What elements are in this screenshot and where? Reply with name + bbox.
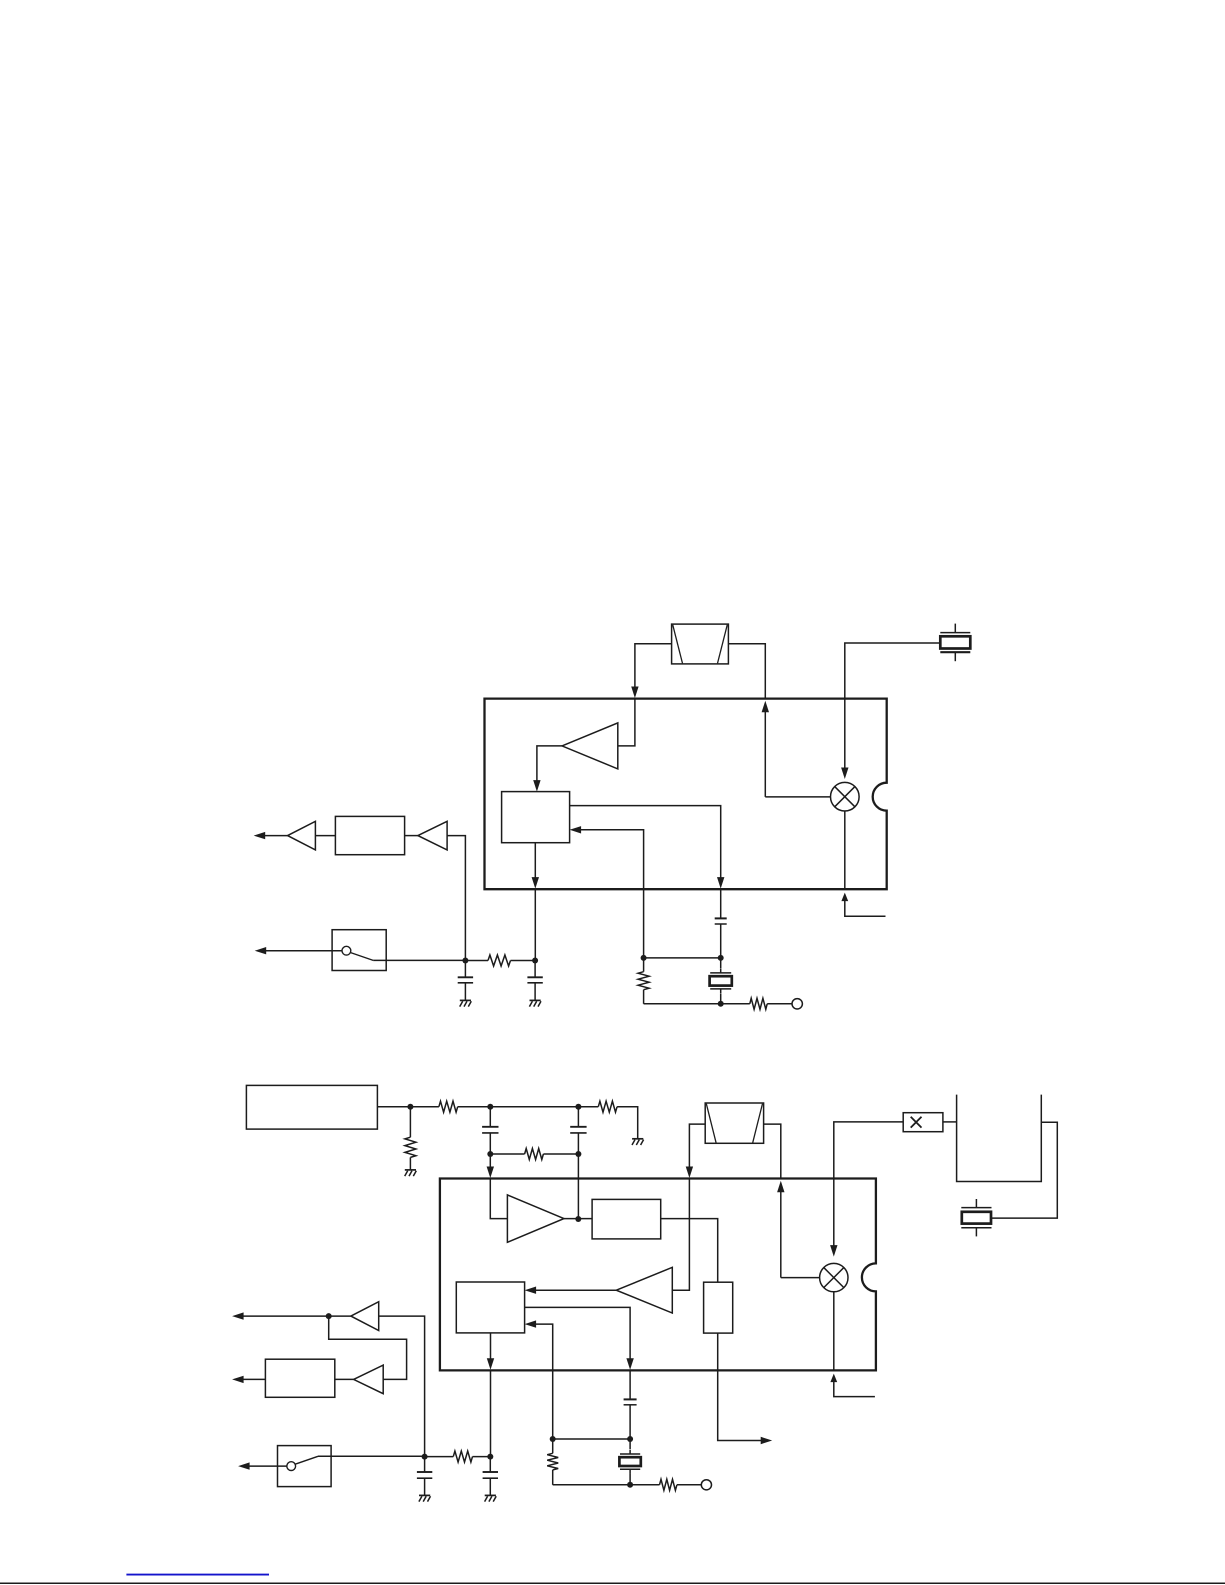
wire B6 quad output down (arrow at IC2 bottom)	[525, 1307, 631, 1365]
block B7 (output filter, bottom diagram)	[265, 1359, 334, 1397]
amplifier A7 (points left)	[354, 1365, 384, 1394]
multiplier box (X) of oscillator	[903, 1113, 943, 1132]
wire mixer M2 to IC2 bottom edge	[833, 1292, 835, 1371]
footer hyperlink underline (blue)	[126, 1574, 269, 1576]
block B2 (output filter)	[335, 816, 404, 854]
crystal X4 (oscillator, bottom diagram)	[975, 1199, 977, 1208]
node N11	[575, 1216, 581, 1222]
capacitor C7 to ground	[489, 1457, 491, 1472]
resistor R2 (horizontal to terminal)	[750, 998, 767, 1009]
node N2	[718, 955, 724, 961]
arrow into IC2 top (IF input pin)	[686, 1167, 693, 1179]
wire A4 output to block B4	[564, 1218, 592, 1220]
wire crystal X1 to mixer M1 LO input	[845, 643, 940, 768]
switch SW1 contact circle	[342, 946, 351, 955]
node N13	[550, 1436, 556, 1442]
IC U1 outline (top diagram)	[485, 699, 887, 890]
arrow into mixer M1 top	[841, 768, 848, 780]
switch SW2 contact circle	[287, 1462, 296, 1471]
capacitor C3 to ground	[464, 961, 466, 978]
output 1 wire with arrow (bottom diagram)	[243, 1315, 351, 1317]
wire R2 to terminal T1	[767, 1003, 792, 1005]
crystal X1 (top-right resonator)	[954, 624, 956, 633]
wire SW2 to node N16	[318, 1455, 425, 1457]
wire pin to amp A5 input	[672, 1179, 689, 1291]
mixer M2 (circle-X, bottom diagram)	[820, 1263, 848, 1291]
wire CF2 output to mixer M2 path	[764, 1124, 781, 1178]
node N17 (on output 1 wire)	[326, 1313, 332, 1319]
resistor R5 (horizontal)	[410, 1106, 439, 1108]
wire node N13 to node N12	[553, 1438, 630, 1440]
arrow into detector B1 top	[533, 780, 540, 792]
arrow into IC1 top (IF amp input pin)	[631, 687, 638, 699]
node N1	[641, 955, 647, 961]
wire oscillator to mixer M2 LO input	[834, 1122, 903, 1250]
phase block B5 (narrow vertical)	[704, 1282, 733, 1333]
terminal T2 (open circle)	[701, 1480, 711, 1490]
output 3 wire with arrow	[249, 1465, 287, 1467]
ground G4	[632, 1138, 643, 1140]
wire node N16 up to output amp chain	[379, 1316, 425, 1457]
wire tank to crystal X4	[991, 1122, 1057, 1218]
node N9	[487, 1151, 493, 1157]
wire C1 to node N2	[720, 924, 722, 958]
node N8	[575, 1104, 581, 1110]
wire B5 output to right arrow (meter output)	[718, 1333, 762, 1440]
capacitor C1 (series, quad network)	[715, 917, 727, 919]
resistor R3 (between N4 and N5)	[465, 960, 488, 962]
wire A7 to block B7	[335, 1378, 354, 1380]
wire N9 down to IC2 input pin	[489, 1154, 491, 1173]
supply block B3 (bottom diagram)	[246, 1085, 377, 1129]
wire X-box to tank circuit	[943, 1121, 957, 1123]
crystal X3 (discriminator)	[629, 1450, 631, 1454]
resistor R7 (between N9 and N10)	[490, 1153, 524, 1155]
wire B1 bottom output to pin (down arrow at IC1 bottom)	[534, 843, 536, 884]
supply pin stub with arrow up into IC1 bottom	[841, 893, 848, 902]
node N4	[462, 958, 468, 964]
switch output wire with arrow	[266, 950, 343, 952]
capacitor C8 to ground	[424, 1457, 426, 1472]
wire N7 to N8	[490, 1106, 578, 1108]
wire A3 to block B2	[405, 835, 418, 837]
node N3 (bottom rail junction)	[718, 1001, 724, 1007]
switch SW2 lever	[295, 1456, 318, 1464]
wire pin to node N15	[490, 1370, 492, 1456]
wire pin to capacitor C6	[629, 1370, 631, 1399]
IC U2 outline (bottom diagram)	[440, 1179, 876, 1371]
wire N10 down into IC2 to node N11	[577, 1154, 579, 1219]
node N5	[532, 958, 538, 964]
resistor R9 (horizontal to terminal)	[660, 1479, 677, 1490]
ground G5	[485, 1494, 496, 1496]
wire B4 to phase block B5	[661, 1219, 718, 1283]
resistor R8 (vertical, discriminator)	[552, 1439, 554, 1453]
resistor R6 (horizontal to ground)	[598, 1101, 617, 1112]
bottom rail wire	[644, 1003, 750, 1005]
output 2 wire with arrow	[243, 1378, 266, 1380]
wire CF2 input from IC2	[689, 1124, 705, 1173]
wire amp A1 output to detector B1	[537, 746, 562, 786]
wire mixer M1 to IC1 bottom edge	[844, 811, 846, 889]
switch SW2 box	[278, 1446, 332, 1487]
capacitor C2 to ground	[534, 961, 536, 978]
wire N17 to amp A7 input	[329, 1316, 407, 1379]
switch SW1 lever	[350, 953, 373, 961]
detector block B6 (bottom diagram)	[456, 1282, 524, 1333]
node N10	[575, 1151, 581, 1157]
ground G1	[530, 999, 541, 1001]
amplifier A6 (points left)	[351, 1302, 379, 1331]
wire feedback from node N1 to B1	[581, 830, 644, 958]
wire IC1 top pin to amp A1 input	[618, 699, 635, 746]
arrow into detector B1 right (feedback input)	[570, 826, 582, 833]
wire CF1 output to IC1	[728, 644, 765, 698]
detector block B1 (top diagram)	[502, 792, 570, 843]
arrow into mixer M2 top	[830, 1245, 837, 1257]
ceramic filter CF1 (SAW bandpass, top diagram)	[672, 624, 729, 664]
wire A5 output to detector B6 (arrow)	[536, 1289, 617, 1291]
capacitor C4 (decoupling, left)	[489, 1107, 491, 1127]
ground G6	[419, 1494, 430, 1496]
ground G2	[460, 999, 471, 1001]
wire pin to amp A4 input	[490, 1179, 507, 1219]
wire pin to capacitor C1	[720, 889, 722, 918]
node N12	[627, 1436, 633, 1442]
amplifier A2 (points left)	[288, 821, 316, 850]
wire feedback from node N13 to B6	[536, 1324, 553, 1439]
wire B6 bottom output to pin (arrow at IC2 bottom)	[490, 1333, 492, 1365]
resistor R1 (vertical, discriminator)	[643, 958, 645, 972]
supply pin stub with arrow up into IC2 bottom	[830, 1374, 837, 1383]
arrow into detector B6 right (feedback input)	[525, 1320, 537, 1327]
wire CF1 input from IC1 IF output	[635, 644, 672, 689]
amplifier A1 (IF amp, points left)	[562, 723, 618, 769]
node N14 (bottom rail junction)	[627, 1482, 633, 1488]
mixer M1 (circle-X, top diagram)	[831, 782, 860, 811]
resistor R10 (between N16 and N15)	[425, 1456, 454, 1458]
wire B3 to node N6	[377, 1106, 410, 1108]
amplifier A3 (points left)	[418, 821, 447, 850]
wire SW1 to node N4	[373, 959, 465, 961]
wire node N4 up to audio amp chain	[447, 836, 465, 961]
capacitor C6 (series, quad network)	[624, 1398, 637, 1400]
wire B1 quad output to pin (down arrow at IC1 bottom)	[570, 806, 721, 884]
ceramic filter CF2 (bottom diagram)	[705, 1103, 763, 1143]
switch SW1 box	[332, 930, 386, 971]
bottom rail wire (diagram 2)	[553, 1484, 660, 1486]
node N7	[487, 1104, 493, 1110]
wire pin to node N5	[534, 889, 536, 960]
amplifier A5 (IF amp, points left)	[616, 1267, 672, 1313]
terminal T1 (open circle)	[792, 999, 802, 1009]
ground G3	[405, 1169, 416, 1171]
wire node N1 to node N2	[644, 957, 721, 959]
wire R9 to terminal T2	[677, 1484, 701, 1486]
node N15	[487, 1454, 493, 1460]
tank circuit T-coil (open-top U)	[957, 1095, 1042, 1182]
resistor R4 (vertical to ground)	[409, 1107, 411, 1138]
footer rule (full width)	[0, 1582, 1225, 1584]
capacitor C5 (decoupling, right)	[577, 1107, 579, 1127]
wire B2 to amplifier A2	[315, 835, 335, 837]
wire mixer M1 output rising to pin (arrow up inside IC1)	[764, 712, 766, 797]
crystal X2 (discriminator)	[720, 969, 722, 973]
node N16	[422, 1454, 428, 1460]
audio output wire with arrow (top diagram)	[265, 835, 288, 837]
amplifier A4 (points right)	[507, 1195, 564, 1242]
wire mixer M2 output rising to pin (arrow up inside IC2)	[780, 1192, 782, 1278]
block B4 (after amp A4)	[592, 1199, 661, 1239]
node N6	[407, 1104, 413, 1110]
wire C6 to node N12	[629, 1405, 631, 1439]
